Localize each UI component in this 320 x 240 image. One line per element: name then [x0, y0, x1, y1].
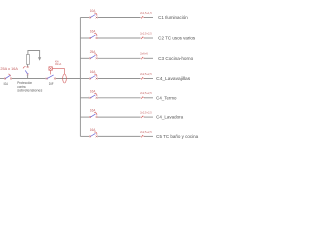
- svg-text:25A: 25A: [90, 50, 96, 54]
- svg-text:16A: 16A: [90, 30, 96, 34]
- svg-text:sobretensiones: sobretensiones: [17, 89, 42, 93]
- svg-text:16A: 16A: [90, 89, 96, 93]
- svg-text:C3 Cocina-horno: C3 Cocina-horno: [158, 56, 194, 61]
- svg-text:C2 TC usos varios: C2 TC usos varios: [158, 36, 195, 41]
- svg-text:2x2,5+2,5: 2x2,5+2,5: [140, 111, 152, 115]
- svg-text:2x6+6: 2x6+6: [140, 52, 148, 56]
- svg-text:16A: 16A: [90, 70, 96, 74]
- svg-text:DIF: DIF: [49, 82, 54, 86]
- svg-text:2x2,5+2,5: 2x2,5+2,5: [140, 72, 152, 76]
- svg-text:2x2,5+2,5: 2x2,5+2,5: [140, 91, 152, 95]
- svg-text:25A o 16A: 25A o 16A: [0, 67, 18, 71]
- svg-text:2x2,5+2,5: 2x2,5+2,5: [140, 130, 152, 134]
- svg-text:C4_Termo: C4_Termo: [156, 95, 177, 100]
- svg-text:IGA: IGA: [4, 82, 9, 86]
- svg-text:10A: 10A: [90, 9, 96, 13]
- svg-text:C5 TC baño y cocina: C5 TC baño y cocina: [156, 134, 199, 139]
- svg-text:30mA: 30mA: [55, 62, 61, 66]
- svg-text:16A: 16A: [90, 109, 96, 113]
- svg-text:2x2,5+2,5: 2x2,5+2,5: [140, 31, 152, 35]
- svg-text:2x1,5+1,5: 2x1,5+1,5: [140, 11, 152, 15]
- svg-text:C4_Lavadora: C4_Lavadora: [156, 115, 184, 120]
- svg-text:16A: 16A: [90, 128, 96, 132]
- svg-text:C4_Lavavajillas: C4_Lavavajillas: [156, 76, 190, 81]
- svg-text:C1 Iluminación: C1 Iluminación: [158, 15, 188, 20]
